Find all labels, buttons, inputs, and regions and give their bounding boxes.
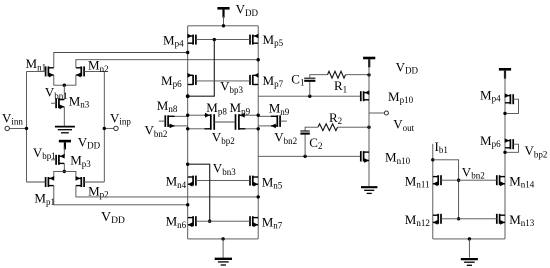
svg-text:Mp8: Mp8 <box>206 100 227 116</box>
node Mp8 top lead <box>186 114 189 117</box>
svg-text:R1: R1 <box>334 78 347 94</box>
power VDD bar output <box>363 58 375 67</box>
wire right input rail vertical <box>103 71 105 182</box>
svg-text:Vinp: Vinp <box>110 110 131 126</box>
wire Mn2 source to tail <box>64 75 76 85</box>
wire Mn2 drain to cascode <box>76 60 258 68</box>
wire VDD stem main <box>223 16 225 26</box>
node Vbn3 tap <box>186 163 189 166</box>
node Mp8 bottom lead <box>186 127 189 130</box>
transistor Mp8 <box>188 113 215 130</box>
node PMOS mirror tap <box>186 94 190 98</box>
transistor Mp2 <box>76 176 105 187</box>
transistor Mp6 bias <box>505 138 514 149</box>
node Mp4 Mp5 gate junction <box>213 38 216 41</box>
svg-text:Ib1: Ib1 <box>435 139 448 155</box>
wire Mp8 Mp9 gates Vbp2 <box>214 121 235 123</box>
svg-text:Mp10: Mp10 <box>388 89 414 105</box>
svg-text:Mp7: Mp7 <box>263 73 284 89</box>
wire Mp1 drain fold <box>54 186 188 205</box>
transistor Mn3 <box>51 98 64 109</box>
node R2 output junction <box>367 126 370 129</box>
terminal Vout <box>384 111 388 115</box>
transistor Mn5 <box>250 176 258 187</box>
transistor Mn6 <box>188 216 196 227</box>
wire Mp3 drain to tail <box>63 163 65 171</box>
transistor Mn4 <box>188 176 196 187</box>
ground main cascode <box>215 259 232 265</box>
wire tail to Mn3 drain <box>63 85 65 99</box>
node tail NMOS pair <box>63 84 66 87</box>
wire tail to Mp1 source <box>54 171 65 178</box>
wire R1 to VDD stem <box>346 74 370 76</box>
wire C2 top to R2 <box>305 127 318 131</box>
svg-text:Mn14: Mn14 <box>509 173 535 189</box>
node R1 VDD junction <box>367 73 370 76</box>
svg-text:VDD: VDD <box>78 134 101 150</box>
node Mp9 bottom lead <box>257 127 260 130</box>
wire Mp4 Mp5 gates <box>196 39 250 41</box>
node Mp2 fold junction <box>257 195 260 198</box>
svg-text:Mn3: Mn3 <box>69 93 90 109</box>
node Mn12 gate junction <box>457 217 460 220</box>
terminal Vinp <box>114 126 118 130</box>
capacitor C2 <box>300 131 309 134</box>
wire Mp4 bias diode loop <box>505 99 519 113</box>
transistor Mn1 <box>27 66 54 77</box>
resistor R2 <box>318 124 338 131</box>
transistor Mp9 <box>236 113 259 130</box>
svg-text:Mn1: Mn1 <box>26 56 47 72</box>
wire top rail <box>188 25 259 27</box>
terminal Vinn <box>5 126 9 130</box>
svg-text:Mn8: Mn8 <box>157 98 178 114</box>
wire Mn1 source to tail <box>54 75 65 85</box>
wire left input rail <box>9 127 26 129</box>
node ground junction bias <box>468 237 471 240</box>
svg-text:Vout: Vout <box>393 117 414 133</box>
wire Mn6 Mn7 gates <box>196 220 250 222</box>
svg-text:Mn7: Mn7 <box>262 214 283 230</box>
wire VDD to Mp3 source <box>63 147 65 156</box>
wire ground stem main <box>222 239 224 258</box>
wire R2 to output <box>338 126 370 128</box>
svg-text:VDD: VDD <box>396 59 419 75</box>
ground bias block <box>461 259 478 265</box>
resistor R1 <box>328 71 346 78</box>
ground below Mn10 <box>361 187 377 193</box>
wire Mp2 drain fold <box>76 186 258 197</box>
wire Mn3 source to ground <box>63 107 65 126</box>
node Vinp junction <box>103 127 106 130</box>
svg-text:Vbp1: Vbp1 <box>33 145 56 161</box>
ground below Mn3 <box>55 127 75 133</box>
svg-text:C1: C1 <box>291 71 304 87</box>
transistor Mn7 <box>250 216 258 227</box>
svg-text:Mp4: Mp4 <box>163 33 184 49</box>
svg-text:Mp5: Mp5 <box>263 32 284 48</box>
transistor Mp10 <box>361 90 370 101</box>
svg-text:Mp3: Mp3 <box>70 153 91 169</box>
wire ground stem bias <box>468 239 470 258</box>
node wire B junction <box>257 58 260 61</box>
wire right input rail <box>104 127 114 129</box>
svg-text:Mp6: Mp6 <box>480 133 501 149</box>
transistor Mp1 <box>27 176 55 187</box>
svg-text:Mp1: Mp1 <box>34 191 55 207</box>
svg-text:Vbn2: Vbn2 <box>274 130 297 146</box>
node tail PMOS pair <box>63 170 66 173</box>
transistor Mp3 <box>51 154 65 165</box>
node Mp4 bias diode <box>503 112 506 115</box>
node Mp9 top lead <box>257 114 260 117</box>
svg-text:Mn6: Mn6 <box>166 214 187 230</box>
wire bottom rail main <box>188 238 259 240</box>
wire right cascode column <box>257 26 259 239</box>
wire C1 top to R1 <box>310 75 328 79</box>
svg-text:Vbn2: Vbn2 <box>145 123 168 139</box>
wire to Vout <box>369 112 384 114</box>
svg-text:R2: R2 <box>329 110 342 126</box>
wire NMOS mirror bias <box>188 164 210 221</box>
wire stage1 output to Mp10 gate <box>258 95 361 97</box>
svg-text:Mn12: Mn12 <box>405 212 430 228</box>
transistor Mp4 bias <box>505 93 514 104</box>
transistor Mn2 <box>76 66 104 77</box>
wire Mn1 drain to cascode <box>54 53 188 68</box>
svg-text:VDD: VDD <box>101 210 125 226</box>
wire Ib1 to gate vertical <box>433 160 459 219</box>
svg-text:Mp9: Mp9 <box>230 100 251 116</box>
wire C1 bottom stem <box>309 82 311 96</box>
power VDD bar bias <box>499 69 511 78</box>
wire gate bias vertical PMOS mirror <box>188 40 215 97</box>
transistor Mn8 <box>159 115 188 128</box>
node wire A junction <box>186 51 189 54</box>
svg-text:Mn9: Mn9 <box>269 101 290 117</box>
power VDD bar input block <box>59 141 71 149</box>
transistor Mn12 <box>433 214 441 225</box>
node VDD stem junction <box>222 24 225 27</box>
node NMOS mirror gate junction <box>208 220 211 223</box>
svg-text:Mn13: Mn13 <box>509 212 535 228</box>
wire left input rail vertical <box>26 71 28 182</box>
svg-text:Mp6: Mp6 <box>161 73 182 89</box>
transistor Mn10 <box>361 151 369 163</box>
capacitor C1 <box>304 78 315 81</box>
wire Mn4 Mn5 gates Vbn3 <box>196 180 250 182</box>
transistor Mn9 <box>258 115 287 128</box>
wire bottom rail bias <box>433 238 505 240</box>
node ground junction main <box>221 237 224 240</box>
wire Mp6 Mp7 gates Vbp3 <box>196 80 250 82</box>
transistor Mp4 <box>187 34 196 45</box>
wire tail to Mp2 source <box>64 171 76 178</box>
power VDD bar main <box>217 8 229 17</box>
svg-text:Mn5: Mn5 <box>262 174 283 190</box>
svg-text:Vbn2: Vbn2 <box>462 164 485 180</box>
wire stage2 to Mn10 gate <box>258 155 361 157</box>
transistor Mp5 <box>250 34 259 45</box>
svg-text:Mn10: Mn10 <box>385 150 411 166</box>
wire left cascode column <box>187 26 189 239</box>
svg-text:Mn11: Mn11 <box>405 173 430 189</box>
svg-text:Vbn3: Vbn3 <box>213 161 236 177</box>
node Mn11 gate junction <box>457 179 460 182</box>
node C2 bottom junction <box>303 155 306 158</box>
svg-text:Mp4: Mp4 <box>480 87 501 103</box>
svg-text:Vbp2: Vbp2 <box>212 130 235 146</box>
wire bias right column <box>504 70 506 239</box>
svg-text:VDD: VDD <box>236 2 259 18</box>
wire Mn11 Mn14 gates <box>441 179 497 181</box>
transistor Mn11 <box>433 175 441 186</box>
node Ib1 tap <box>431 158 434 161</box>
node C1 bottom junction <box>308 95 311 98</box>
wire output column <box>368 60 370 187</box>
node Vinn junction <box>25 127 28 130</box>
svg-text:Vinn: Vinn <box>2 110 23 126</box>
transistor Mp6 <box>187 73 196 85</box>
wire Mp6 bias diode loop <box>505 144 519 152</box>
wire bias left column Ib1 <box>432 144 434 239</box>
svg-text:Mn4: Mn4 <box>166 174 187 190</box>
wire Mn12 Mn13 gates <box>441 218 497 220</box>
transistor Mp7 <box>250 73 259 85</box>
wire C2 bottom stem <box>304 135 306 157</box>
node Mp6 bias diode <box>503 151 506 154</box>
transistor Mn13 <box>497 214 505 225</box>
svg-text:C2: C2 <box>309 135 322 151</box>
transistor Mn14 <box>497 175 505 186</box>
svg-text:Vbp2: Vbp2 <box>525 143 548 159</box>
node Mp1 fold junction <box>186 203 189 206</box>
